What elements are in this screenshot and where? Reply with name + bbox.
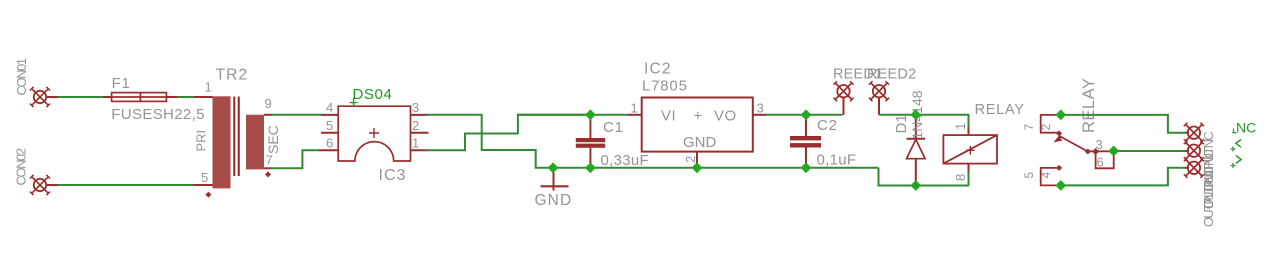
DS04 plus sign [369,128,379,138]
svg-text:1: 1 [205,80,212,95]
svg-text:RELAY: RELAY [975,102,1025,118]
svg-text:SEC: SEC [265,125,281,154]
contact dot A [1085,149,1091,155]
DS04 pin 2 stub [411,132,429,134]
wire TR2 pin 9 to DS04 pin 4 [272,114,323,116]
svg-text:7: 7 [1022,124,1036,131]
svg-text:F1: F1 [112,75,131,92]
transformer TR2 secondary winding [246,115,264,170]
svg-text:4: 4 [1039,172,1053,179]
connector REED1 [833,81,853,115]
svg-text:5: 5 [1022,172,1036,179]
wire CON01 to fuse F1 [57,96,104,98]
transformer TR2 core [233,97,240,177]
node C2 bottom junction [801,162,812,173]
node IC2 pin 2 junction [692,162,703,173]
DS04 label tick [350,98,358,108]
net A+ label [1231,156,1242,169]
TR2 pin 5 stub [193,184,213,186]
connector OUT bottom [1184,158,1204,178]
svg-text:D1: D1 [893,114,910,133]
capacitor C2 [790,115,821,168]
svg-text:CON01: CON01 [14,58,29,95]
svg-text:8: 8 [953,174,968,181]
svg-text:GND: GND [535,192,573,209]
wire TR2 pin 7 to DS04 pin 6 [271,150,321,168]
IC2 pin 2 stub [696,152,698,168]
svg-text:3: 3 [412,100,419,115]
wire contact pin 2 to OUT top [1061,115,1186,133]
contact pivot dot [1056,130,1062,136]
relay armature [1053,135,1087,151]
relay contact bottom bracket pins 5,4 [1041,168,1061,186]
connector CON02 [30,175,58,195]
svg-text:1: 1 [412,135,419,150]
diode D1 [907,115,926,186]
svg-text:2: 2 [683,156,698,163]
svg-text:4: 4 [326,100,333,115]
svg-text:3: 3 [757,101,764,116]
svg-text:L7805: L7805 [642,78,688,95]
bridge rectifier IC3 body [338,106,410,161]
relay K1 pin 1 stub [968,126,970,135]
voltage regulator IC2 body [642,98,753,152]
top rail wire REED2 to relay coil [879,114,969,116]
contact dot C [1056,165,1062,171]
svg-text:3: 3 [1096,137,1103,152]
connector CON01 [30,87,58,107]
node contact bottom junction [1055,180,1066,191]
svg-text:CON02: CON02 [14,148,29,185]
DS04 pin 6 stub [319,149,338,151]
node C1 bottom junction [585,162,596,173]
wire DS04 pin 1 to top rail [425,115,590,150]
contact dot B [1092,148,1099,155]
net V+ label [1231,140,1242,152]
IC2 pin 3 stub [753,114,767,116]
bottom rail wire C2 to relay pin 8 [879,168,969,186]
wire contact pins 3,6 to OUT mid [1114,150,1186,152]
wire contact pin 4 to OUT bottom [1061,168,1186,186]
DS04 pin 3 stub [411,114,429,116]
wire fuse to TR2 pin 1 [178,96,196,98]
TR2 polarity dot primary [205,192,211,198]
svg-text:2: 2 [412,118,419,133]
svg-text:2: 2 [1039,124,1053,131]
svg-text:1: 1 [953,123,968,130]
svg-text:C1: C1 [603,119,624,136]
svg-text:IC3: IC3 [379,167,407,184]
connector OUT mid [1184,141,1204,161]
svg-text:OUTPUTNC: OUTPUTNC [1201,167,1216,227]
svg-text:REED2: REED2 [867,67,916,83]
svg-text:5: 5 [326,118,333,133]
DS04 pin 1 stub [411,149,429,151]
svg-text:6: 6 [326,135,333,150]
svg-text:GND: GND [683,134,717,151]
relay contact pins 3,6 [1088,151,1114,168]
svg-text:NC: NC [1236,120,1256,136]
svg-text:VO: VO [714,108,737,125]
node contact top junction [1055,110,1066,121]
relay coil body [943,135,997,164]
svg-text:VI: VI [661,108,676,125]
svg-text:0,33uF: 0,33uF [601,152,650,169]
fuse F1 [103,93,178,102]
DS04 pin 5 stub [321,132,338,134]
net NC tick [1232,129,1236,134]
TR2 polarity dot secondary [265,171,271,177]
svg-text:5: 5 [201,170,208,185]
transformer TR2 primary winding [213,96,231,188]
connector REED2 [869,81,889,115]
TR2 pin 7 stub [264,167,272,169]
capacitor C1 [576,115,605,168]
wire CON02 to TR2 pin 5 [57,184,194,186]
node C1 top junction [585,109,596,120]
connector OUT top [1184,123,1204,143]
svg-text:IC2: IC2 [644,61,672,78]
relay pin 8 stub [968,164,970,173]
bottom rail wire GND to C2 [553,167,879,169]
node D1 top junction [910,109,921,120]
svg-text:DS04: DS04 [353,86,393,103]
relay contact top bracket pins 7,2 [1041,115,1061,133]
node contact mid junction [1108,146,1119,157]
svg-text:C2: C2 [817,117,838,134]
wire DS04 pin 3 to bottom rail [425,115,553,168]
bridge rectifier DS04 pin 4 stub [321,114,338,116]
svg-text:+: + [694,108,703,125]
top rail wire to IC2 pin 1 [518,114,629,116]
svg-text:6: 6 [1097,155,1104,170]
TR2 pin 9 stub [264,114,273,116]
node D1 bottom junction [910,180,921,191]
transformer TR2 pin 1 stub [194,96,212,98]
svg-text:9: 9 [265,96,272,111]
svg-text:1: 1 [631,101,638,116]
svg-text:FUSESH22,5: FUSESH22,5 [111,106,205,123]
svg-text:RELAY: RELAY [1080,78,1098,133]
voltage regulator IC2 pin 1 stub [628,114,642,116]
ground symbol [541,168,569,191]
top rail wire IC2 pin 3 to REED1 [766,114,843,116]
svg-text:0,1uF: 0,1uF [817,152,857,169]
svg-text:PRI: PRI [194,130,209,152]
svg-text:TR2: TR2 [216,67,249,84]
node C2 top junction [801,109,812,120]
node GND junction [548,162,559,173]
svg-text:7: 7 [266,153,273,168]
